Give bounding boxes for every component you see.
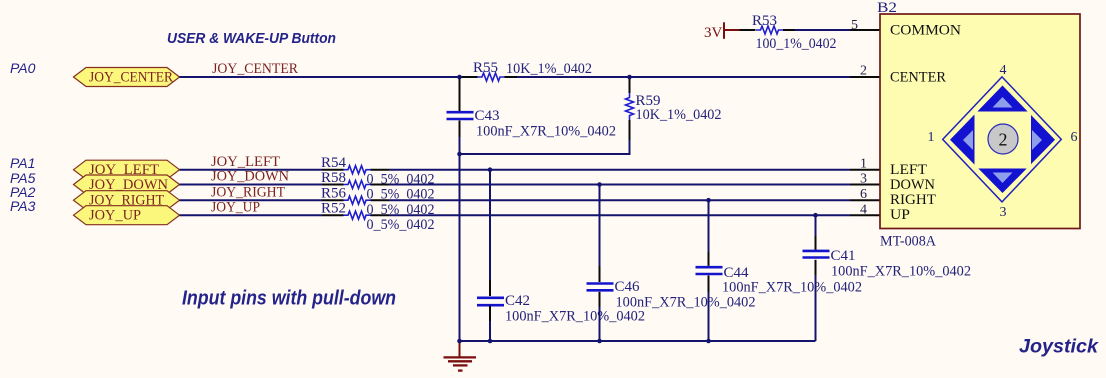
capacitor C41	[803, 236, 972, 280]
svg-text:DOWN: DOWN	[890, 177, 935, 193]
joystick diamond outline	[943, 77, 1062, 202]
resistor R55	[473, 60, 592, 81]
component B2 body	[880, 14, 1080, 229]
resistor R54	[321, 155, 435, 188]
svg-text:LEFT: LEFT	[890, 162, 927, 178]
joystick arrow down	[993, 173, 1013, 184]
svg-text:100nF_X7R_10%_0402: 100nF_X7R_10%_0402	[616, 295, 756, 311]
joystick center square	[975, 112, 1032, 169]
svg-text:USER & WAKE-UP Button: USER & WAKE-UP Button	[167, 30, 336, 47]
port JOY_RIGHT	[74, 191, 180, 210]
svg-text:5: 5	[851, 18, 858, 33]
pin 1 stub	[850, 169, 880, 171]
wire C43 to gnd rail	[459, 137, 461, 154]
wire C44 to gnd rail	[708, 292, 710, 341]
svg-text:C43: C43	[475, 108, 500, 124]
wire JOY_UP row	[180, 214, 323, 216]
pin 3 stub	[850, 184, 880, 186]
joystick arrow right	[1032, 130, 1042, 150]
svg-text:R55: R55	[473, 60, 498, 76]
svg-text:R52: R52	[321, 201, 346, 217]
wire R56 to pin6	[389, 199, 850, 201]
svg-text:MT-008A: MT-008A	[880, 234, 936, 250]
capacitor C42	[477, 280, 645, 325]
pin 2 stub	[850, 76, 880, 78]
pin 4 stub	[850, 214, 880, 216]
svg-text:2: 2	[860, 64, 867, 79]
svg-text:JOY_CENTER: JOY_CENTER	[89, 70, 173, 86]
svg-text:6: 6	[1071, 130, 1078, 145]
svg-text:JOY_LEFT: JOY_LEFT	[211, 154, 280, 170]
wire C41 column upper	[815, 215, 817, 236]
wire C46 to gnd rail	[599, 307, 601, 341]
port JOY_CENTER	[74, 68, 180, 87]
wire JOY_CENTER row	[180, 76, 463, 78]
wire C44 column upper	[708, 200, 710, 252]
wire R55 to pin2	[517, 76, 850, 78]
svg-text:3: 3	[860, 172, 867, 187]
svg-text:JOY_UP: JOY_UP	[89, 208, 141, 224]
svg-text:RIGHT: RIGHT	[890, 192, 936, 208]
wire C42 to gnd rail	[489, 321, 491, 341]
svg-text:B2: B2	[877, 0, 897, 16]
svg-text:R58: R58	[321, 170, 346, 186]
svg-text:4: 4	[1000, 63, 1007, 78]
joystick center button	[988, 124, 1018, 154]
svg-text:JOY_CENTER: JOY_CENTER	[212, 61, 298, 77]
svg-text:100nF_X7R_10%_0402: 100nF_X7R_10%_0402	[476, 124, 616, 140]
wire JOY_LEFT row	[180, 169, 323, 171]
svg-text:COMMON: COMMON	[890, 23, 961, 39]
svg-text:1: 1	[928, 130, 935, 145]
capacitor C46	[587, 266, 756, 311]
svg-text:3V: 3V	[704, 25, 723, 41]
junction node DOWN/C46	[597, 182, 602, 187]
junction node rail/C43	[457, 152, 462, 157]
svg-text:3: 3	[1000, 205, 1007, 220]
port JOY_DOWN	[74, 175, 180, 194]
svg-text:R53: R53	[752, 13, 777, 29]
wire C43 column upper	[459, 77, 461, 94]
svg-text:100_1%_0402: 100_1%_0402	[756, 36, 837, 52]
junction node rail/C46	[597, 339, 602, 344]
junction node LEFT/C42	[488, 167, 493, 172]
junction node rail/C42	[488, 339, 493, 344]
svg-text:R54: R54	[321, 155, 347, 171]
wire R58 to pin3	[389, 184, 850, 186]
capacitor C44	[696, 252, 863, 296]
resistor R53	[752, 13, 837, 52]
svg-text:2: 2	[999, 130, 1008, 150]
svg-text:100nF_X7R_10%_0402: 100nF_X7R_10%_0402	[505, 309, 645, 325]
wire gnd bottom rail	[460, 340, 816, 342]
wire JOY_RIGHT row	[180, 199, 323, 201]
pin R55 left	[462, 76, 478, 78]
wire gnd vertical	[459, 154, 461, 341]
svg-text:100nF_X7R_10%_0402: 100nF_X7R_10%_0402	[831, 264, 971, 280]
svg-text:6: 6	[860, 187, 867, 202]
ground	[444, 342, 477, 371]
svg-text:4: 4	[860, 202, 867, 217]
pin R53 left	[740, 29, 756, 31]
svg-text:UP: UP	[890, 207, 910, 223]
junction node UP/C41	[813, 213, 818, 218]
svg-text:JOY_DOWN: JOY_DOWN	[211, 169, 289, 185]
wire C41 to gnd rail	[815, 275, 817, 341]
junction node CENTER/R59	[627, 75, 632, 80]
svg-text:10K_1%_0402: 10K_1%_0402	[506, 61, 592, 77]
svg-text:Input pins with pull-down: Input pins with pull-down	[182, 288, 396, 310]
svg-text:C41: C41	[831, 248, 856, 264]
svg-text:JOY_UP: JOY_UP	[211, 199, 260, 215]
wire R52 to pin4	[389, 214, 850, 216]
svg-text:Joystick: Joystick	[1019, 337, 1099, 358]
joystick arrow left	[963, 130, 973, 150]
wire R54 to pin1	[389, 169, 850, 171]
pin R53 right	[783, 29, 795, 31]
svg-text:0_5%_0402: 0_5%_0402	[367, 217, 435, 233]
joystick inner diamond	[950, 86, 1055, 194]
resistor R59	[626, 77, 722, 140]
pin 6 stub	[850, 199, 880, 201]
wire R59 to gnd rail	[460, 140, 630, 154]
svg-text:PA1: PA1	[10, 155, 35, 171]
wire C46 column upper	[599, 185, 601, 267]
junction node rail/C44	[706, 339, 711, 344]
pin R55 right	[505, 76, 518, 78]
port JOY_LEFT	[74, 160, 180, 179]
svg-text:C42: C42	[505, 293, 530, 309]
power 3V	[704, 22, 740, 41]
resistor R56	[321, 186, 435, 219]
joystick arrow up	[993, 97, 1013, 108]
port JOY_UP	[74, 206, 180, 225]
pin 5 stub	[850, 29, 880, 31]
svg-text:10K_1%_0402: 10K_1%_0402	[636, 107, 722, 123]
svg-text:C46: C46	[615, 279, 641, 295]
wire JOY_DOWN row	[180, 184, 323, 186]
svg-text:CENTER: CENTER	[890, 69, 946, 85]
resistor R58	[321, 170, 435, 203]
wire R53 to pin5	[795, 29, 850, 31]
junction node gnd/rail	[457, 339, 462, 344]
svg-text:JOY_RIGHT: JOY_RIGHT	[211, 184, 285, 200]
svg-text:1: 1	[860, 156, 867, 171]
svg-text:PA0: PA0	[10, 60, 36, 76]
junction node RIGHT/C44	[706, 198, 711, 203]
svg-text:100nF_X7R_10%_0402: 100nF_X7R_10%_0402	[722, 280, 862, 296]
junction node CENTER/C43	[457, 75, 462, 80]
svg-text:R56: R56	[321, 186, 347, 202]
resistor R52	[321, 201, 435, 234]
capacitor C43	[447, 94, 617, 140]
svg-text:PA3: PA3	[10, 198, 36, 214]
wire C42 column upper	[489, 170, 491, 280]
